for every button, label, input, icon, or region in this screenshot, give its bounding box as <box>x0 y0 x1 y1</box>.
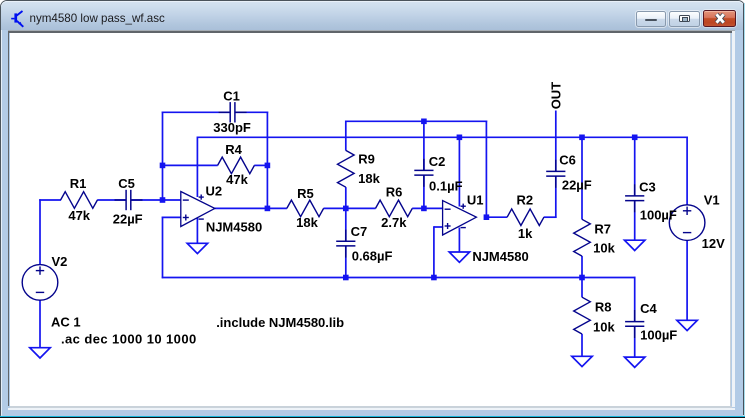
wire V1 to ground <box>686 240 688 320</box>
svg-text:R8: R8 <box>595 299 612 314</box>
node C2-loop <box>421 119 427 125</box>
svg-text:R9: R9 <box>358 152 375 167</box>
capacitor C3 <box>625 184 644 212</box>
svg-text:R5: R5 <box>297 186 314 201</box>
svg-text:12V: 12V <box>702 236 725 251</box>
voltage source V2 <box>22 265 58 301</box>
wire U2 V- pin <box>196 218 198 244</box>
wire U1 plus input <box>434 226 443 228</box>
wire feedback loop top <box>345 120 487 122</box>
svg-text:10k: 10k <box>593 241 615 256</box>
wire R2 to C6 corner <box>544 216 557 218</box>
wire C2 top lead <box>423 121 425 171</box>
capacitor C1 <box>219 102 247 122</box>
resistor R7 <box>574 219 591 256</box>
svg-text:V1: V1 <box>704 192 720 207</box>
resistor R2 <box>507 209 544 226</box>
voltage source V1 <box>669 205 705 241</box>
wire R7 bottom lead <box>581 256 583 278</box>
wire R8 bottom lead <box>581 334 583 357</box>
wire C2 bottom lead <box>423 175 425 209</box>
node C3-rail <box>632 135 638 141</box>
wire C1 right <box>235 111 268 113</box>
wire R1 to C5 <box>97 199 126 201</box>
wire C1 left <box>162 111 231 113</box>
capacitor C2 <box>414 159 433 187</box>
svg-text:47k: 47k <box>68 208 90 223</box>
svg-text:U1: U1 <box>467 192 484 207</box>
svg-text:R7: R7 <box>594 221 611 236</box>
svg-text:C1: C1 <box>223 89 240 104</box>
node minus-R4 <box>160 163 166 169</box>
LTspice app icon (transistor glyph) <box>0 0 30 30</box>
wire C7 to vref bus <box>345 246 347 278</box>
capacitor C4 <box>625 310 644 338</box>
wire U2 plus drop <box>162 217 164 279</box>
svg-text:C3: C3 <box>639 179 656 194</box>
node R7-rail <box>579 135 585 141</box>
wire C5 to U2 minus <box>131 199 181 201</box>
wire node B to C7 <box>345 208 347 242</box>
svg-text:22µF: 22µF <box>562 178 592 193</box>
ground U1 ground <box>449 252 469 262</box>
svg-text:C4: C4 <box>640 301 657 316</box>
svg-text:R4: R4 <box>225 142 242 157</box>
wire C3 top lead <box>634 137 636 197</box>
svg-text:2.7k: 2.7k <box>381 215 407 230</box>
wire U1 V- pin <box>458 228 460 253</box>
node C5-out <box>160 197 166 203</box>
wire C6 bottom riser <box>555 176 557 218</box>
svg-text:.include NJM4580.lib: .include NJM4580.lib <box>216 315 344 330</box>
node node B <box>343 206 349 212</box>
node fb-R4 <box>265 163 271 169</box>
wire rail to V1 <box>686 137 688 206</box>
svg-text:OUT: OUT <box>549 82 564 110</box>
svg-text:V2: V2 <box>51 254 67 269</box>
node U2-out <box>265 206 271 212</box>
ground C3 ground <box>625 240 645 250</box>
wire U2 V+ pin <box>196 137 198 198</box>
wire U1 plus drop <box>433 226 435 278</box>
wire R8 top lead <box>581 277 583 298</box>
node U1-Vplus rail <box>457 135 463 141</box>
ground C4 ground <box>625 357 645 367</box>
wire V2 to R1 <box>39 199 61 201</box>
wire U2 output <box>214 207 287 209</box>
svg-text:330pF: 330pF <box>213 120 251 135</box>
resistor R4 <box>218 157 255 174</box>
svg-text:U2: U2 <box>205 183 222 198</box>
node R7R8-bus <box>579 275 585 281</box>
capacitor C6 <box>546 160 565 188</box>
svg-text:R2: R2 <box>516 193 533 208</box>
wire C4 bottom lead <box>634 326 636 357</box>
wire R5 to R6 <box>324 207 376 209</box>
svg-text:22µF: 22µF <box>113 211 143 226</box>
node U1-out <box>484 214 490 220</box>
node U1-minus <box>421 206 427 212</box>
wire minus node vertical <box>162 112 164 201</box>
wire supply rail <box>197 136 688 138</box>
svg-text:100µF: 100µF <box>640 327 677 342</box>
node C7-bus <box>343 275 349 281</box>
wire R4 right <box>254 164 268 166</box>
wire loop right vertical <box>485 121 487 219</box>
wire V2 bottom lead <box>39 300 41 348</box>
wire R9 bottom to node B <box>345 187 347 209</box>
op-amp U2 <box>181 192 215 227</box>
ground V2 ground <box>30 348 50 358</box>
svg-text:100µF: 100µF <box>640 207 677 222</box>
wire U1 V+ pin <box>458 137 460 207</box>
wire U2 plus input <box>162 216 182 218</box>
svg-text:.ac dec 1000 10 1000: .ac dec 1000 10 1000 <box>61 332 197 347</box>
wire U1 out to R2 <box>486 216 507 218</box>
op-amp U1 <box>443 201 477 235</box>
ground U2 ground <box>187 243 207 253</box>
resistor R1 <box>61 192 98 209</box>
resistor R5 <box>287 200 324 217</box>
wire R6 to U1 minus <box>412 207 443 209</box>
svg-text:0.1µF: 0.1µF <box>429 179 463 194</box>
svg-text:R6: R6 <box>386 184 403 199</box>
resistor R6 <box>376 200 413 217</box>
svg-text:18k: 18k <box>358 171 380 186</box>
resistor R9 <box>338 150 355 187</box>
wire C6 top to OUT <box>555 111 557 172</box>
wire feedback vertical x267 <box>266 112 268 210</box>
ground R8 ground <box>572 356 592 366</box>
svg-text:NJM4580: NJM4580 <box>472 249 528 264</box>
node U1plus-bus <box>431 275 437 281</box>
svg-text:10k: 10k <box>593 320 615 335</box>
capacitor C7 <box>336 230 355 258</box>
svg-text:C5: C5 <box>118 176 135 191</box>
svg-text:AC 1: AC 1 <box>51 315 81 330</box>
wire vref bus <box>162 277 636 279</box>
svg-text:0.68µF: 0.68µF <box>352 248 393 263</box>
svg-text:C7: C7 <box>351 224 368 239</box>
wire R7 top lead <box>581 137 583 220</box>
capacitor C5 <box>115 190 143 210</box>
wire C4 top lead <box>634 277 636 322</box>
svg-text:18k: 18k <box>296 215 318 230</box>
svg-text:C6: C6 <box>559 153 576 168</box>
svg-text:47k: 47k <box>226 172 248 187</box>
svg-text:R1: R1 <box>70 176 87 191</box>
resistor R8 <box>574 297 591 334</box>
wire loop to R9 top <box>345 121 347 151</box>
ground V1 ground <box>677 320 697 330</box>
wire V2 top riser <box>39 199 41 265</box>
svg-text:NJM4580: NJM4580 <box>206 220 262 235</box>
wire R4 left <box>162 164 218 166</box>
wire C3 bottom lead <box>634 201 636 241</box>
svg-text:C2: C2 <box>429 154 446 169</box>
svg-text:1k: 1k <box>518 226 533 241</box>
